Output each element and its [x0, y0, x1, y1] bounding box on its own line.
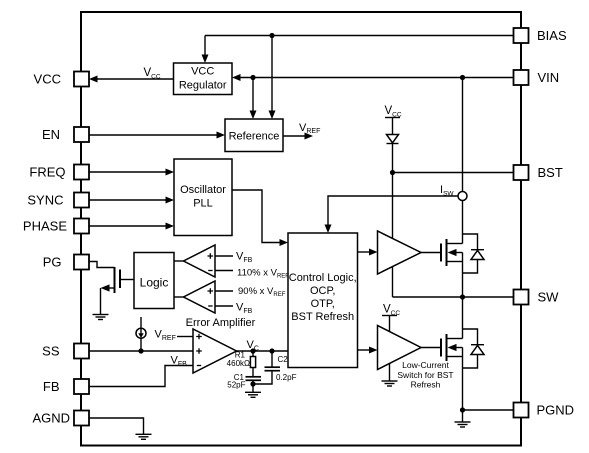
current probe ISW [458, 192, 467, 201]
svg-text:FREQ: FREQ [29, 165, 65, 180]
node BIAS-Reference junction [269, 33, 274, 38]
comparator CMP1 [184, 245, 216, 277]
node VIN-switch junction [460, 75, 465, 80]
wire AGND to ground [89, 418, 144, 434]
ground compensation [245, 384, 261, 397]
svg-text:Regulator: Regulator [179, 80, 227, 92]
node VIN-Reference junction [250, 75, 255, 80]
wire CMP2 minus input [215, 305, 233, 307]
wire SYNC to oscillator [89, 199, 166, 201]
wire U-LS bottom to ground [389, 364, 391, 381]
Control Logic U-CTRL [288, 233, 358, 368]
svg-text:PLL: PLL [193, 198, 213, 210]
wire BIAS net [205, 35, 514, 37]
diode D-Q1 body [463, 234, 485, 273]
wire BST to driver top rail [392, 173, 394, 239]
svg-text:C2: C2 [278, 355, 289, 364]
wire VREF output [283, 135, 305, 137]
U-EA plus sign middle [196, 348, 202, 354]
svg-text:SW: SW [538, 290, 560, 305]
wire CMP1 output to Logic [174, 260, 184, 262]
wire VREF to U-EA top input [177, 336, 193, 338]
U-EA plus sign top [196, 334, 202, 340]
IC boundary [81, 12, 521, 446]
svg-text:PHASE: PHASE [23, 219, 67, 234]
svg-text:EN: EN [42, 127, 60, 142]
Logic U-LOGIC [134, 253, 174, 309]
svg-text:52pF: 52pF [227, 381, 245, 390]
svg-text:Error Amplifier: Error Amplifier [186, 317, 256, 329]
wire U-LS output to Q2 gate [421, 347, 441, 349]
wire I-SS to SS net [140, 338, 142, 351]
pin BIAS [514, 28, 567, 43]
wire R1 to C1 [252, 368, 254, 377]
pin PGND [514, 403, 575, 418]
node SW junction [460, 294, 465, 299]
Reference U-REF [225, 119, 283, 152]
wire PG pin to transistor drain [89, 262, 115, 268]
svg-text:Switch for BST: Switch for BST [397, 370, 453, 380]
CMP2 plus sign [208, 288, 214, 294]
svg-text:OTP,: OTP, [311, 298, 335, 310]
pin VIN [514, 70, 560, 85]
ground U-LS [382, 381, 398, 386]
pin VCC [34, 72, 89, 87]
pin AGND [32, 411, 89, 426]
diode D1 BST refresh [387, 135, 399, 144]
node BST junction [390, 170, 395, 175]
wire CMP1 plus input [215, 255, 233, 257]
transistor Q2 gate bar [440, 339, 442, 357]
wire VIN net [240, 77, 514, 79]
driver U-LS low-current switch [378, 326, 422, 370]
wire U-EA output VC to Control Logic [237, 350, 289, 352]
svg-text:BIAS: BIAS [537, 28, 567, 43]
pin FREQ [29, 165, 89, 180]
current source I-SS [136, 328, 146, 338]
wire PHASE to oscillator [89, 225, 166, 227]
wire C1 junction to C2 bottom [253, 371, 272, 384]
wire CMP2 plus input [215, 290, 233, 292]
svg-text:VCC: VCC [34, 72, 61, 87]
svg-text:Refresh: Refresh [411, 380, 441, 390]
VCC supply bar (low-side driver) [382, 315, 397, 317]
pin FB [43, 379, 89, 394]
wire D1 to BST net [392, 144, 394, 173]
ground AGND [136, 434, 152, 439]
wire BST net [393, 172, 514, 174]
transistor Q1 drain lead [447, 243, 463, 245]
wire Q2 drain to SW [462, 297, 464, 339]
wire ISW to Control Logic top [328, 196, 458, 225]
VCC supply bar (BST diode) [385, 117, 400, 119]
pin SW [514, 290, 560, 305]
resistor R1 [250, 357, 255, 368]
wire BIAS to VCC Regulator top [204, 36, 206, 56]
transistor Q1 source lead [447, 261, 463, 263]
wire VC to C2 top [271, 351, 273, 367]
svg-text:OCP,: OCP, [310, 285, 335, 297]
pin SYNC [27, 193, 89, 208]
capacitor C2 [265, 367, 281, 371]
wire Q-PG source to ground [100, 288, 102, 315]
svg-text:Oscillator: Oscillator [180, 184, 226, 196]
svg-text:AGND: AGND [32, 411, 70, 426]
capacitor C1 [246, 377, 262, 381]
wire VCC output to VCC pin [98, 78, 174, 80]
transistor Q2 source lead [447, 356, 463, 358]
svg-text:VCC: VCC [191, 66, 214, 78]
wire SS to U-EA middle input [89, 350, 193, 352]
pin SS [42, 344, 89, 359]
CMP2 minus sign [208, 305, 212, 307]
wire CMP2 output to Logic [174, 296, 184, 298]
svg-text:Control Logic,: Control Logic, [289, 272, 357, 284]
CMP1 plus sign [208, 253, 214, 259]
ground PGND [455, 410, 471, 427]
wire U-HS output to Q1 gate [421, 252, 441, 254]
wire driver bottom to SW rail [392, 267, 394, 298]
Oscillator PLL U-OSC [174, 159, 232, 236]
svg-text:460kΩ: 460kΩ [227, 359, 250, 368]
svg-text:PG: PG [43, 255, 62, 270]
wire ISW sense line vertical [462, 78, 464, 244]
wire CMP1 minus input [215, 270, 233, 272]
wire Logic to Q-PG gate [120, 279, 134, 281]
current source I-SS arrow [140, 328, 142, 334]
transistor Q1 channel [446, 239, 448, 266]
svg-text:SYNC: SYNC [27, 193, 63, 208]
op-amp U-EA error amplifier [193, 329, 237, 373]
wire Q2 source to PGND [462, 348, 464, 411]
label Low-Current Switch for BST Refresh [397, 360, 453, 390]
transistor Q-PG channel [114, 267, 116, 293]
transistor Q-PG source arrow [109, 287, 115, 289]
svg-text:SS: SS [42, 344, 60, 359]
transistor Q1 body arrow [456, 252, 463, 254]
node PGND junction [460, 407, 465, 412]
wire C1 to ground node [252, 380, 254, 384]
svg-text:FB: FB [43, 379, 60, 394]
current source I-SS stub [140, 317, 142, 328]
wire Q1 source to SW [462, 253, 464, 298]
pin PHASE [23, 219, 89, 234]
wire VIN to Reference top [252, 78, 254, 112]
wire FB to U-EA inverting input [89, 366, 193, 387]
svg-text:Low-Current: Low-Current [402, 360, 449, 370]
transistor Q2 channel [446, 334, 448, 361]
svg-text:Reference: Reference [229, 131, 280, 143]
wire BIAS to Reference top [271, 36, 273, 112]
svg-text:BST: BST [538, 165, 563, 180]
node C1-C2 junction [250, 381, 255, 386]
wire oscillator to control logic [232, 190, 280, 243]
wire SW net [393, 296, 514, 298]
wire FREQ to oscillator [89, 171, 166, 173]
pin BST [514, 165, 563, 180]
U-EA minus sign [197, 365, 201, 367]
svg-text:0.2pF: 0.2pF [276, 373, 297, 382]
transistor Q-PG gate bar [119, 270, 121, 289]
wire EN to Reference [89, 134, 217, 136]
svg-text:BST Refresh: BST Refresh [291, 311, 354, 323]
VCC Regulator U-REG [174, 63, 233, 95]
ground PG [93, 315, 109, 320]
svg-text:Logic: Logic [140, 276, 169, 290]
wire PGND net [463, 409, 514, 411]
diode D-Q2 body [463, 329, 485, 368]
comparator CMP2 [184, 281, 216, 313]
node VC C2 junction [269, 348, 274, 353]
wire Control Logic to low-side driver [358, 349, 370, 351]
node VC R1 junction [250, 348, 255, 353]
transistor Q1 gate bar [440, 244, 442, 262]
pin PG [43, 255, 89, 270]
svg-text:VIN: VIN [538, 70, 560, 85]
svg-text:PGND: PGND [537, 403, 575, 418]
wire Control Logic to high-side driver [358, 251, 370, 253]
wire VCC to diode D1 [392, 118, 394, 135]
wire VC to R1 [252, 351, 254, 357]
node SS junction [138, 348, 143, 353]
CMP1 minus sign [208, 270, 212, 272]
driver U-HS high-side [378, 231, 422, 274]
wire VCC to U-LS top [389, 316, 391, 332]
pin EN [42, 127, 89, 142]
transistor Q2 drain lead [447, 338, 463, 340]
transistor Q2 body arrow [456, 347, 463, 349]
